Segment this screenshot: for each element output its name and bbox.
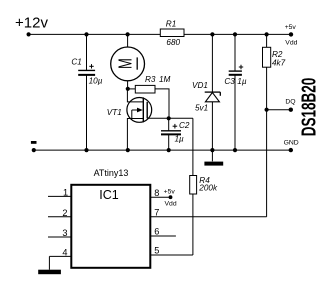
ground symbol pin4	[38, 270, 61, 275]
svg-text:5v1: 5v1	[195, 103, 208, 112]
svg-text:1M: 1M	[159, 75, 171, 84]
wire drain lead	[127, 89, 143, 102]
svg-text:4: 4	[62, 248, 67, 258]
wire DQ stub	[267, 109, 291, 111]
IC U1 ATtiny13	[71, 168, 150, 268]
svg-text:VD1: VD1	[192, 81, 208, 90]
capacitor C3	[224, 34, 246, 150]
pin 5 wire to R4	[151, 246, 193, 256]
wire top +12v rail	[29, 33, 291, 35]
node GND terminal	[284, 140, 299, 153]
resistor R3	[128, 75, 171, 118]
motor M	[111, 34, 145, 88]
pin 2	[48, 208, 71, 218]
svg-text:ATtiny13: ATtiny13	[94, 168, 129, 178]
svg-text:7: 7	[154, 207, 159, 217]
svg-text:680: 680	[166, 38, 180, 47]
pin 8 +5v stub	[151, 188, 177, 208]
svg-text:R1: R1	[166, 20, 176, 29]
pin 4	[49, 248, 70, 270]
svg-text:M: M	[115, 58, 136, 69]
wire GND rail	[34, 149, 291, 151]
resistor R2	[263, 34, 286, 216]
pin 1	[48, 188, 71, 198]
svg-text:C1: C1	[71, 58, 81, 67]
node DQ terminal	[285, 98, 295, 112]
wire R3 right to gate node	[155, 89, 169, 118]
svg-text:R3: R3	[145, 75, 156, 84]
node +12v start dot	[27, 32, 31, 36]
svg-text:4k7: 4k7	[272, 59, 286, 68]
svg-text:1: 1	[63, 188, 68, 198]
node junction motor top	[126, 32, 130, 36]
svg-text:1µ: 1µ	[237, 77, 247, 86]
node junction VD1 top	[210, 32, 214, 36]
resistor R1	[160, 20, 184, 47]
pin 3	[48, 228, 71, 238]
svg-text:8: 8	[154, 188, 159, 198]
pin 7 wire to DQ	[151, 207, 267, 217]
wire gate to RC node	[147, 117, 193, 119]
node junction C3 bottom	[233, 148, 237, 152]
svg-text:10µ: 10µ	[89, 77, 103, 86]
node +12v label	[15, 15, 48, 32]
svg-text:3: 3	[62, 228, 67, 238]
VT1 substrate arrow	[132, 109, 139, 111]
node junction gate/C2/R4	[167, 116, 171, 120]
svg-text:C3: C3	[224, 77, 235, 86]
node GND rail left dot	[32, 148, 36, 152]
node minus label	[31, 141, 37, 144]
node junction C2 bottom	[167, 148, 171, 152]
VT1 channel bar	[142, 97, 144, 122]
capacitor C1	[71, 34, 102, 150]
node junction C3 top	[233, 32, 237, 36]
svg-text:R2: R2	[272, 50, 283, 59]
svg-text:IC1: IC1	[99, 188, 119, 202]
svg-text:1µ: 1µ	[175, 135, 185, 144]
svg-text:200k: 200k	[198, 184, 218, 193]
svg-text:+5v: +5v	[164, 189, 176, 196]
svg-text:+12v: +12v	[15, 15, 48, 32]
svg-text:Vdd: Vdd	[165, 201, 177, 208]
svg-text:DQ: DQ	[285, 98, 295, 105]
svg-text:5: 5	[154, 246, 159, 256]
ground symbol near VD1	[204, 150, 223, 166]
svg-text:DS18B20: DS18B20	[298, 78, 320, 137]
node junction source bottom	[126, 148, 130, 152]
svg-text:6: 6	[154, 227, 159, 237]
svg-text:GND: GND	[284, 140, 299, 147]
resistor R4	[190, 118, 218, 255]
node junction motor bottom / drain	[126, 87, 130, 91]
pin 6 stub	[151, 227, 176, 237]
svg-text:C2: C2	[179, 121, 190, 130]
capacitor C2	[161, 118, 190, 150]
diode VD1 (zener 5v1)	[192, 34, 220, 150]
transistor VT1 (MOSFET)	[107, 89, 152, 150]
node junction DQ	[265, 108, 269, 112]
svg-text:+5v: +5v	[285, 24, 297, 31]
svg-text:2: 2	[62, 208, 67, 218]
node +5v Vdd terminal	[285, 24, 298, 46]
VT1 gate bar	[146, 102, 148, 119]
svg-text:Vdd: Vdd	[285, 39, 297, 46]
node junction R2 top	[265, 32, 269, 36]
wire R2 bottom to DQ / pin7	[266, 67, 268, 217]
node junction C1 bottom	[84, 148, 88, 152]
svg-text:VT1: VT1	[107, 108, 122, 117]
node junction VD1 bottom	[210, 148, 214, 152]
wire source lead to ground	[127, 119, 143, 151]
node junction C1 top	[84, 32, 88, 36]
